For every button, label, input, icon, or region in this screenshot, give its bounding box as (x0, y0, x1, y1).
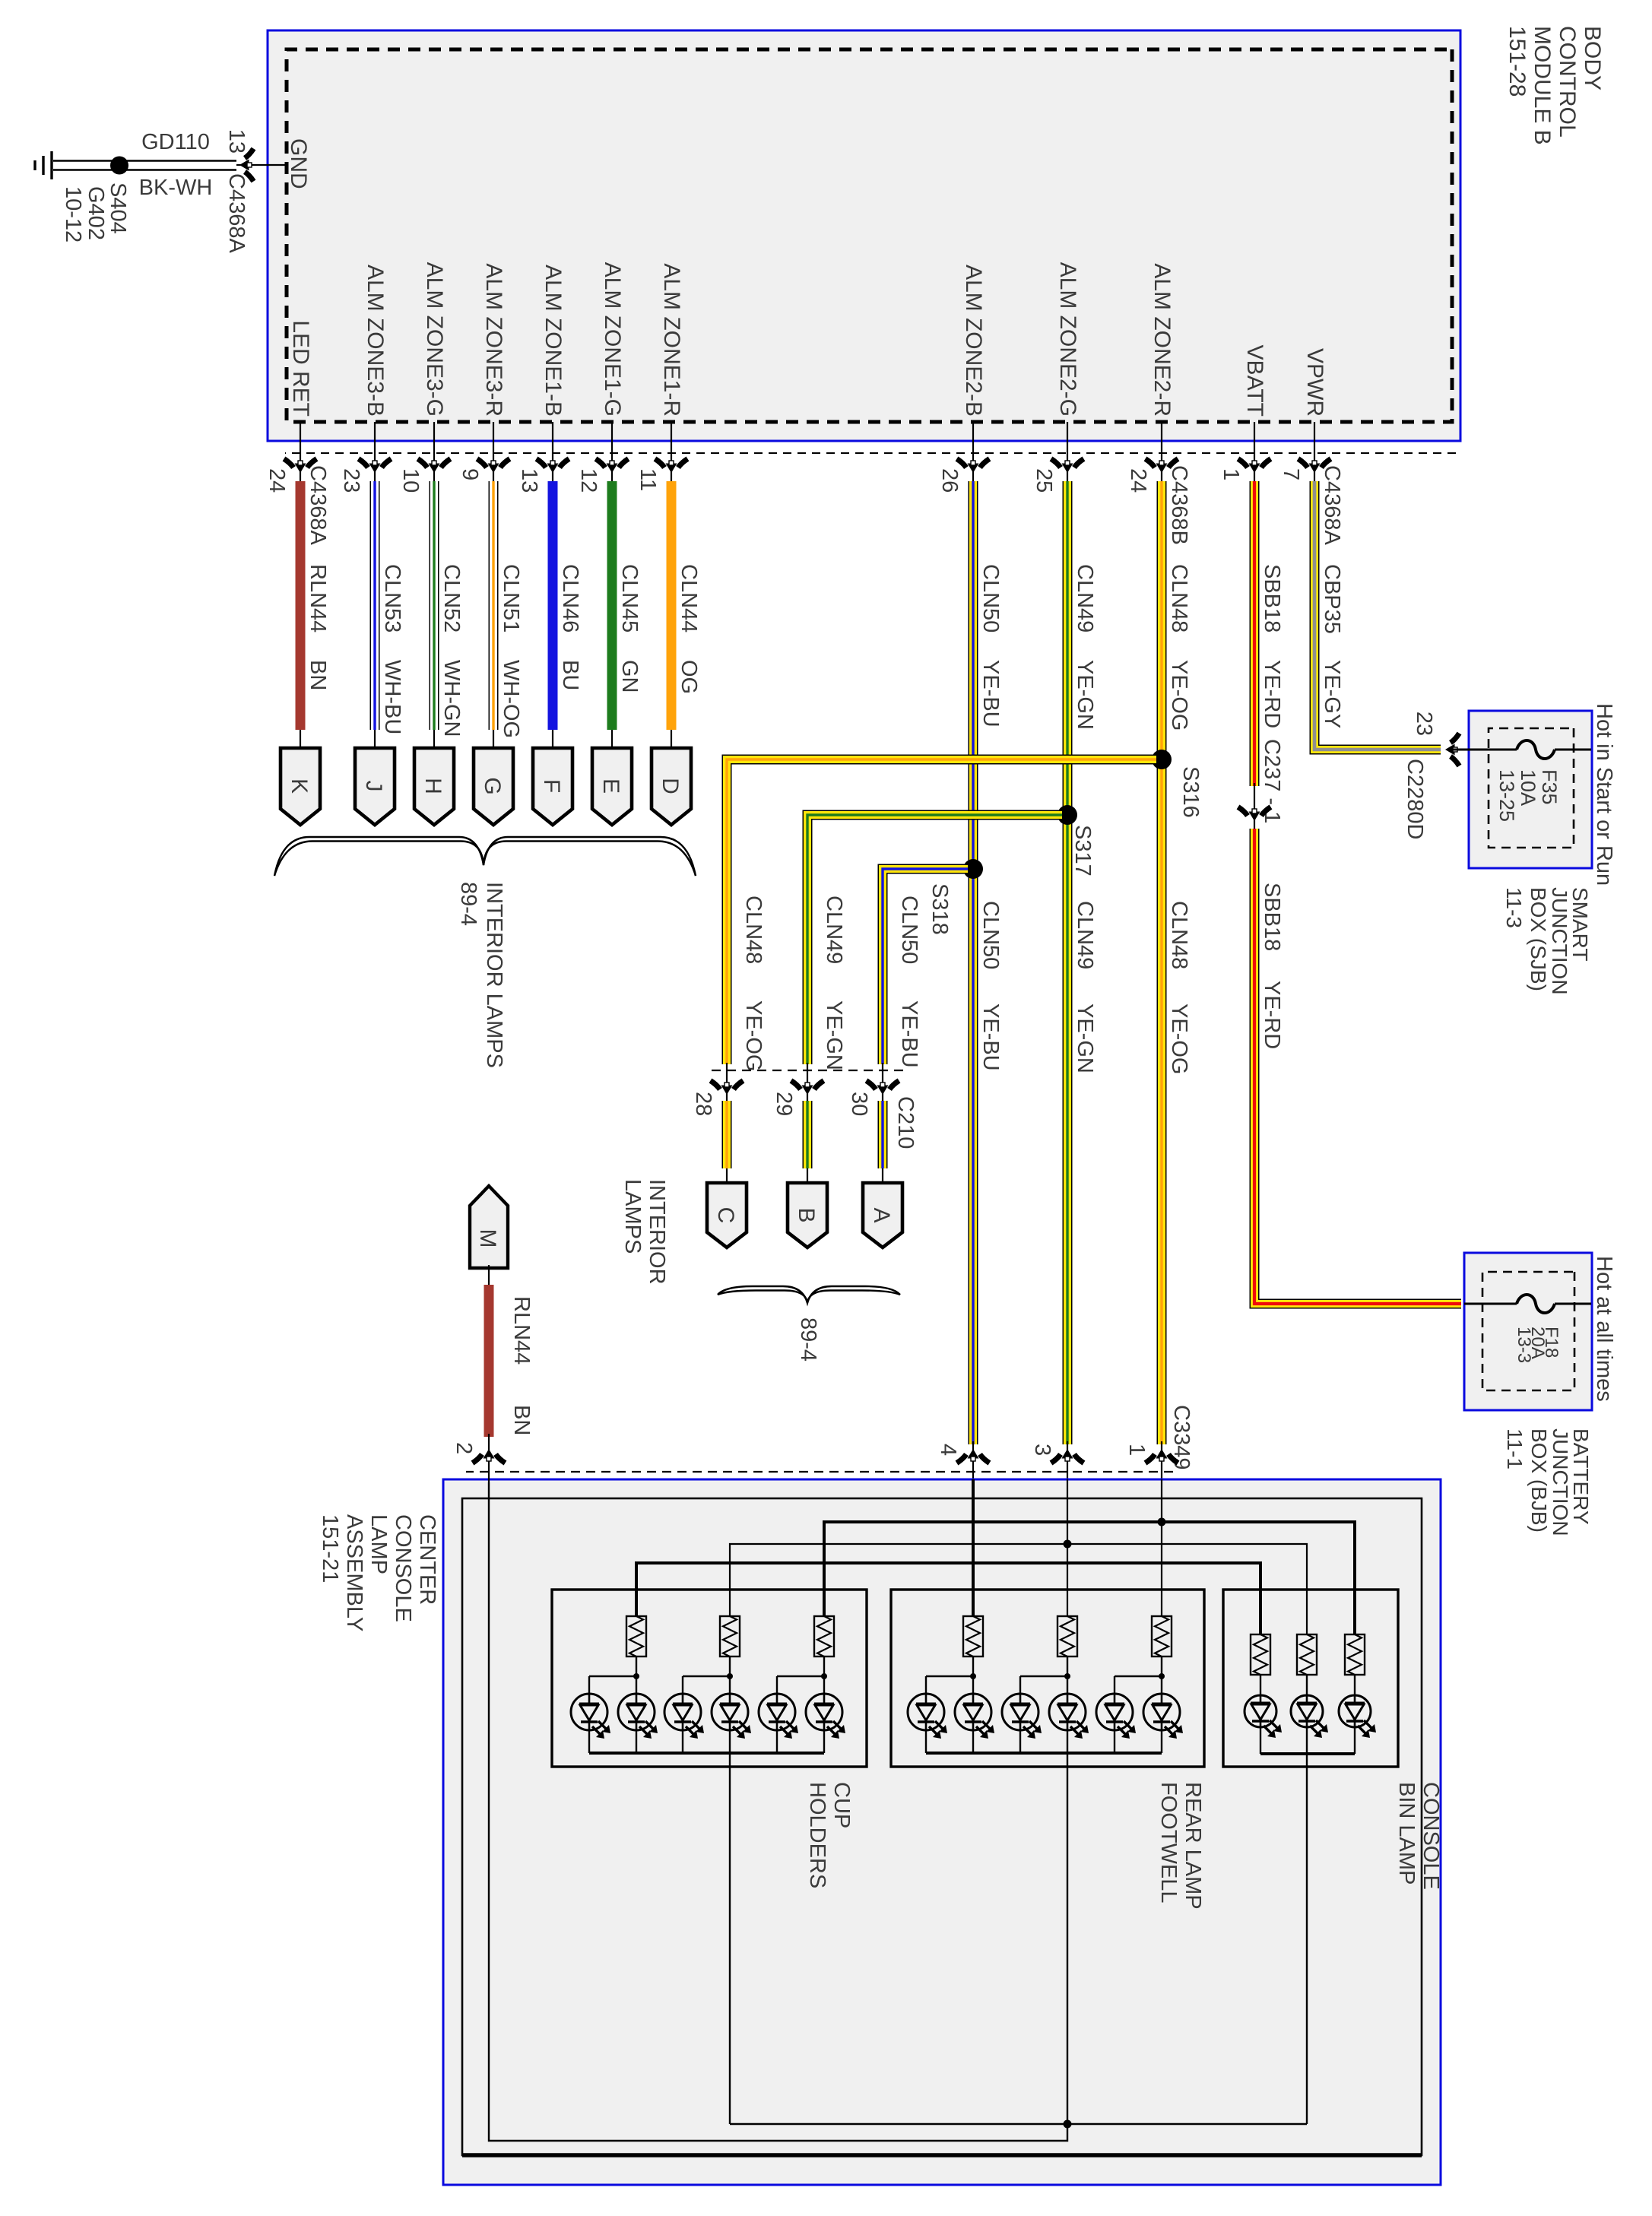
svg-text:GND: GND (286, 138, 311, 189)
rear footwell lamp LED D6 (1096, 1694, 1136, 1753)
connector terminal F (533, 748, 572, 825)
console bin lamp LED wiring row 3 (1354, 1675, 1356, 1695)
console bin return wire (1306, 1754, 1308, 2124)
cup holders lamp LED D6 (759, 1694, 798, 1753)
svg-text:ASSEMBLY: ASSEMBLY (342, 1514, 366, 1631)
svg-text:H: H (420, 778, 446, 794)
svg-text:26: 26 (937, 468, 962, 493)
svg-text:SMART: SMART (1568, 887, 1592, 962)
console bin lamp resistor R3 (1345, 1634, 1365, 1675)
svg-text:25: 25 (1032, 468, 1056, 493)
connector terminal J (355, 748, 395, 825)
wire RLN44 BN (300, 481, 330, 750)
svg-text:9: 9 (458, 468, 482, 480)
svg-text:S317: S317 (1070, 825, 1095, 877)
connector terminal H (414, 748, 454, 825)
Smart Junction Box (SJB) with fuse F35 (1448, 711, 1592, 868)
svg-text:C4368B: C4368B (1167, 465, 1191, 545)
svg-text:VBATT: VBATT (1242, 345, 1267, 417)
svg-text:VPWR: VPWR (1302, 348, 1327, 417)
rear footwell lamp LED wiring row 1 (926, 1656, 976, 1694)
svg-text:ALM ZONE1-G: ALM ZONE1-G (600, 262, 625, 417)
wire CLN49 YE-GN zone2-G (1067, 481, 1097, 1482)
svg-text:Hot in Start or Run: Hot in Start or Run (1592, 703, 1616, 886)
svg-text:C210: C210 (893, 1096, 918, 1149)
console bin lamp resistor R1 (1251, 1634, 1270, 1675)
rear footwell lamp LED D2 (908, 1694, 947, 1753)
svg-text:CBP35: CBP35 (1320, 564, 1344, 634)
junction pin1 x busA (1158, 1518, 1166, 1526)
C3349 pin 3 arrow (1030, 1444, 1084, 1463)
svg-text:BODY: BODY (1580, 26, 1605, 90)
svg-text:89-4: 89-4 (796, 1317, 820, 1362)
wire CBP35 YE-GY VPWR to SJB (1314, 481, 1441, 750)
svg-text:7: 7 (1279, 468, 1303, 480)
svg-text:CLN50: CLN50 (897, 896, 921, 964)
svg-text:1: 1 (1219, 468, 1243, 480)
svg-text:23: 23 (339, 468, 363, 493)
connector terminal A (863, 1183, 902, 1247)
svg-text:YE-OG: YE-OG (741, 1000, 766, 1071)
svg-text:J: J (361, 781, 386, 792)
svg-text:CLN50: CLN50 (978, 901, 1003, 969)
splice S316 (1152, 750, 1203, 818)
connector terminal K (281, 748, 320, 825)
brace for interior lamps group 2 (718, 1286, 900, 1303)
svg-text:CLN53: CLN53 (380, 564, 404, 632)
cup holders lamp resistor R2 (720, 1616, 740, 1656)
svg-text:BOX (BJB): BOX (BJB) (1527, 1428, 1551, 1533)
svg-text:YE-OG: YE-OG (1167, 1003, 1191, 1074)
rear footwell lamp resistor R3 (1152, 1616, 1172, 1656)
svg-text:E: E (598, 778, 623, 794)
rear footwell lamp LED D4 (1002, 1694, 1042, 1753)
svg-text:REAR LAMP: REAR LAMP (1181, 1782, 1205, 1910)
GND pin stub wire and connector C4368A pin 13 (224, 129, 287, 254)
label SMART JUNCTION BOX (SJB) 11-3 (1502, 887, 1592, 995)
BCM pin 24 LED RET stub and labels (265, 320, 330, 545)
cup holders return wire (729, 1753, 731, 2124)
connector C3349 dashed line (466, 1405, 1194, 1472)
svg-text:CLN48: CLN48 (1167, 564, 1191, 632)
wire SBB18 YE-RD VBATT to BJB (1254, 481, 1461, 1304)
wire CLN50 YE-BU zone2-B (973, 481, 1003, 1482)
C210 pin 29 arrow (772, 1081, 824, 1117)
svg-text:CONSOLE: CONSOLE (391, 1514, 415, 1622)
console bin lamp LED D5 (1339, 1695, 1376, 1754)
junction pin3 x busB (1064, 1540, 1072, 1549)
svg-text:GD110: GD110 (141, 130, 210, 154)
label INTERIOR LAMPS group2 (620, 1179, 669, 1285)
svg-text:13: 13 (224, 129, 249, 154)
svg-text:D: D (658, 778, 683, 794)
cup holders lamp LED D4 (664, 1694, 704, 1753)
svg-text:29: 29 (772, 1092, 796, 1116)
wire CLN52 WH-GN (434, 481, 464, 750)
svg-text:INTERIOR LAMPS: INTERIOR LAMPS (482, 882, 506, 1068)
svg-text:WH-BU: WH-BU (380, 660, 404, 734)
BCM pin 24 ALM ZONE2-R stub and labels (1126, 263, 1191, 545)
svg-text:11-1: 11-1 (1503, 1428, 1527, 1469)
label BATTERY JUNCTION BOX (BJB) 11-1 (1503, 1428, 1593, 1536)
connector terminal D (652, 748, 691, 825)
svg-text:HOLDERS: HOLDERS (805, 1782, 829, 1888)
svg-text:G402: G402 (84, 186, 108, 240)
rear footwell lamp resistor R2 (1057, 1616, 1077, 1656)
connector C4368 dashed boundary line (285, 452, 1456, 454)
svg-text:1: 1 (1124, 1444, 1149, 1456)
cup holders lamp LED D3 (712, 1694, 751, 1753)
svg-text:28: 28 (691, 1092, 715, 1116)
BCM pin 10 ALM ZONE3-G stub and labels (398, 262, 451, 496)
C210 pin 30 arrow (847, 1081, 899, 1117)
svg-text:13: 13 (517, 468, 541, 493)
Body Control Module B box U1 (268, 30, 1460, 441)
svg-text:GN: GN (617, 660, 642, 693)
svg-text:C: C (713, 1207, 738, 1224)
connector terminal G (474, 748, 513, 825)
svg-text:G: G (480, 777, 505, 794)
branch wire CLN50 YE-BU to pin 30 (883, 869, 968, 1184)
svg-text:YE-BU: YE-BU (897, 1000, 921, 1068)
Battery Junction Box (BJB) with fuse F18 (1464, 1253, 1592, 1410)
svg-text:K: K (287, 778, 312, 794)
svg-text:24: 24 (265, 468, 289, 493)
cup holders lamp resistor R3 (814, 1616, 834, 1656)
label REAR LAMP FOOTWELL (1156, 1782, 1205, 1910)
svg-text:M: M (475, 1229, 500, 1248)
console feed wire from pin 3 (zone2-G) (1067, 1479, 1068, 1616)
svg-text:BN: BN (306, 660, 330, 690)
BCM pin 26 ALM ZONE2-B stub and labels (937, 265, 990, 496)
wire CLN48 YE-OG zone2-R (1162, 481, 1191, 1482)
connector terminal E (592, 748, 632, 825)
svg-text:BU: BU (558, 660, 582, 690)
connector terminal C (707, 1183, 747, 1247)
branch wire CLN48 YE-OG to pin 28 (727, 759, 1156, 1184)
C3349 pin 1 arrow (1124, 1444, 1178, 1463)
rear footwell lamp LED D5 (1143, 1694, 1183, 1753)
Center Console Lamp Assembly box (443, 1479, 1441, 2185)
svg-text:JUNCTION: JUNCTION (1549, 1428, 1572, 1536)
connector terminal M (470, 1186, 508, 1268)
svg-text:CLN49: CLN49 (1073, 564, 1097, 632)
rear footwell lamp LED wiring row 2 (1020, 1656, 1070, 1694)
svg-text:RLN44: RLN44 (306, 564, 330, 632)
BCM pin 1 VBATT stub and labels (1219, 345, 1271, 496)
connector C210 dashed line (707, 1070, 918, 1149)
BCM title label (1505, 26, 1605, 145)
svg-text:BOX (SJB): BOX (SJB) (1527, 887, 1550, 991)
rear footwell lamp LED D3 (1049, 1694, 1089, 1753)
svg-text:CLN49: CLN49 (822, 896, 846, 964)
svg-text:ALM ZONE3-G: ALM ZONE3-G (422, 262, 447, 417)
cup holders lamp cathode bus (589, 1752, 824, 1755)
BCM pin 13 ALM ZONE1-B stub and labels (517, 265, 569, 496)
svg-text:CENTER: CENTER (415, 1514, 439, 1605)
wire CLN51 WH-OG (493, 481, 523, 750)
splice S317 (1057, 805, 1095, 877)
svg-text:BN: BN (509, 1405, 534, 1435)
svg-text:F: F (539, 779, 564, 793)
svg-text:LAMP: LAMP (366, 1514, 391, 1574)
svg-text:12: 12 (576, 468, 601, 493)
svg-text:2: 2 (452, 1442, 476, 1454)
wire RLN44 BN return from console pin 2 (489, 1265, 534, 1482)
cup holders lamp LED wiring row 3 (777, 1656, 827, 1694)
wire CLN45 GN (612, 481, 642, 750)
wire CLN53 WH-BU (375, 481, 404, 750)
svg-text:151-21: 151-21 (318, 1514, 342, 1583)
console feed wire from pin 1 (zone2-R) (1161, 1479, 1162, 1616)
svg-text:4: 4 (936, 1444, 960, 1456)
cup holders lamp LED wiring row 1 (589, 1656, 639, 1694)
svg-text:CLN52: CLN52 (439, 564, 464, 632)
svg-text:30: 30 (847, 1092, 871, 1116)
svg-text:CLN50: CLN50 (978, 564, 1003, 632)
svg-text:10A: 10A (1517, 769, 1539, 806)
BCM pin 23 ALM ZONE3-B stub and labels (339, 265, 392, 496)
svg-text:10-12: 10-12 (61, 186, 85, 243)
svg-text:F35: F35 (1538, 769, 1561, 805)
svg-text:YE-RD: YE-RD (1260, 981, 1284, 1049)
console feed wire from pin 4 (zone2-B) (972, 1479, 975, 1616)
svg-text:S404: S404 (106, 182, 130, 234)
svg-text:WH-GN: WH-GN (439, 660, 464, 737)
label CENTER CONSOLE LAMP ASSEMBLY 151-21 (318, 1514, 439, 1631)
svg-text:CLN46: CLN46 (558, 564, 582, 632)
BCM pin 25 ALM ZONE2-G stub and labels (1032, 262, 1084, 496)
cup holders lamp LED D5 (806, 1694, 845, 1753)
ground symbol G402 (35, 151, 108, 243)
svg-text:C4368A: C4368A (224, 173, 249, 253)
svg-text:YE-BU: YE-BU (978, 1003, 1003, 1071)
console bin lamp cathode bus (1260, 1752, 1355, 1755)
svg-text:CLN48: CLN48 (1167, 901, 1191, 969)
svg-text:A: A (869, 1207, 894, 1222)
rear footwell lamp box (891, 1590, 1204, 1767)
connector terminal B (788, 1183, 827, 1247)
C3349 pin 4 arrow (936, 1444, 990, 1463)
svg-text:ALM ZONE2-G: ALM ZONE2-G (1055, 262, 1080, 417)
brace for interior lamps group 1 (274, 837, 696, 876)
svg-text:13-3: 13-3 (1514, 1327, 1534, 1363)
splice S404 (106, 157, 130, 234)
console bin lamp LED D1 (1245, 1695, 1282, 1754)
console bin lamp LED wiring row 1 (1260, 1675, 1261, 1695)
svg-text:LED RET: LED RET (288, 320, 313, 417)
BCM pin 11 ALM ZONE1-R stub and labels (636, 263, 688, 496)
internal bus C (pin4 to cup/bin R1) (636, 1563, 1260, 1634)
svg-text:Hot at all times: Hot at all times (1592, 1256, 1616, 1402)
wire CLN46 BU (553, 481, 582, 750)
console bin lamp resistor R2 (1297, 1634, 1317, 1675)
console bin lamp LED D3 (1291, 1695, 1328, 1754)
branch wire CLN49 YE-GN to pin 29 (807, 815, 1062, 1184)
svg-text:YE-GY: YE-GY (1320, 660, 1344, 728)
svg-text:ALM ZONE3-R: ALM ZONE3-R (481, 263, 506, 417)
svg-text:CLN51: CLN51 (499, 564, 523, 632)
svg-text:S318: S318 (927, 883, 952, 935)
svg-text:YE-BU: YE-BU (978, 660, 1003, 728)
svg-text:YE-RD: YE-RD (1260, 660, 1284, 728)
svg-text:WH-OG: WH-OG (499, 660, 523, 738)
in-line connector C237 pin 1 arrow (1238, 807, 1271, 822)
svg-text:23: 23 (1412, 712, 1436, 736)
return bus to pin 2 (489, 1482, 1307, 2141)
svg-text:BIN LAMP: BIN LAMP (1394, 1782, 1419, 1885)
svg-text:3: 3 (1030, 1444, 1054, 1456)
BCM pin 9 ALM ZONE3-R stub and labels (458, 263, 510, 496)
svg-text:YE-GN: YE-GN (822, 1000, 846, 1070)
internal bus B (pin3 to cup/bin R2) (730, 1544, 1307, 1634)
svg-text:CONSOLE: CONSOLE (1419, 1782, 1443, 1890)
svg-text:LAMPS: LAMPS (620, 1179, 645, 1254)
C3349 pin 2 arrow (452, 1442, 506, 1463)
svg-text:CLN49: CLN49 (1073, 901, 1097, 969)
svg-text:CLN45: CLN45 (617, 564, 642, 632)
BCM pin 12 ALM ZONE1-G stub and labels (576, 262, 629, 496)
rear footwell lamp cathode bus (926, 1752, 1162, 1755)
svg-text:ALM ZONE1-R: ALM ZONE1-R (659, 263, 684, 417)
console bin lamp box (1223, 1590, 1398, 1767)
svg-text:B: B (794, 1207, 819, 1222)
cup holders lamp LED D1 (618, 1694, 658, 1753)
svg-text:ALM ZONE2-B: ALM ZONE2-B (961, 265, 986, 417)
console bin lamp LED wiring row 2 (1306, 1675, 1308, 1695)
svg-text:89-4: 89-4 (456, 882, 480, 926)
svg-text:151-28: 151-28 (1505, 26, 1530, 97)
svg-text:CLN44: CLN44 (677, 564, 701, 632)
svg-text:BATTERY: BATTERY (1569, 1428, 1593, 1525)
wire GD110 BK-WH (double line) (53, 130, 236, 200)
internal bus A (pin1 to cup/bin R3) (824, 1522, 1355, 1634)
svg-text:MODULE B: MODULE B (1530, 26, 1555, 145)
wire CLN44 OG (671, 481, 701, 750)
svg-text:YE-GN: YE-GN (1073, 1003, 1097, 1073)
BCM pin 7 VPWR stub and labels (1279, 348, 1344, 545)
svg-text:CLN48: CLN48 (741, 896, 766, 964)
cup holders lamp resistor R1 (626, 1616, 646, 1656)
svg-text:CONTROL: CONTROL (1555, 26, 1580, 138)
label CUP HOLDERS (805, 1782, 854, 1888)
svg-text:RLN44: RLN44 (509, 1296, 534, 1365)
svg-text:11: 11 (636, 468, 660, 491)
rear footwell lamp LED wiring row 3 (1115, 1656, 1165, 1694)
svg-text:ALM ZONE1-B: ALM ZONE1-B (541, 265, 566, 417)
rear footwell lamp LED D1 (955, 1694, 994, 1753)
cup holders lamp LED D2 (571, 1694, 610, 1753)
svg-text:13-25: 13-25 (1495, 769, 1518, 822)
svg-text:S316: S316 (1178, 766, 1203, 818)
rear footwell lamp resistor R1 (963, 1616, 983, 1656)
label CONSOLE BIN LAMP (1394, 1782, 1443, 1890)
svg-text:ALM ZONE2-R: ALM ZONE2-R (1149, 263, 1175, 417)
C210 pin 28 arrow (691, 1081, 744, 1117)
svg-text:BK-WH: BK-WH (139, 176, 213, 200)
svg-text:SBB18: SBB18 (1260, 883, 1284, 951)
svg-text:OG: OG (677, 660, 701, 694)
svg-text:FOOTWELL: FOOTWELL (1156, 1782, 1181, 1904)
cup holders lamp LED wiring row 2 (683, 1656, 733, 1694)
SJB connector C2280D pin 23 arrow (1403, 712, 1469, 840)
svg-text:YE-GN: YE-GN (1073, 660, 1097, 730)
label INTERIOR LAMPS 89-4 (456, 882, 506, 1068)
svg-text:ALM ZONE3-B: ALM ZONE3-B (363, 265, 388, 417)
svg-text:INTERIOR: INTERIOR (645, 1179, 669, 1285)
svg-text:JUNCTION: JUNCTION (1548, 887, 1571, 995)
svg-text:YE-OG: YE-OG (1167, 660, 1191, 731)
splice S318 (927, 859, 983, 935)
svg-text:C4368A: C4368A (306, 465, 330, 545)
svg-text:24: 24 (1126, 468, 1150, 493)
cup holders lamp box (552, 1590, 867, 1767)
svg-text:C4368A: C4368A (1320, 465, 1344, 545)
svg-text:SBB18: SBB18 (1260, 564, 1284, 632)
svg-text:11-3: 11-3 (1502, 887, 1526, 928)
svg-text:C2280D: C2280D (1403, 759, 1427, 839)
svg-text:10: 10 (398, 468, 423, 493)
rear footwell return wire (1067, 1753, 1068, 2124)
svg-text:CUP: CUP (829, 1782, 854, 1828)
